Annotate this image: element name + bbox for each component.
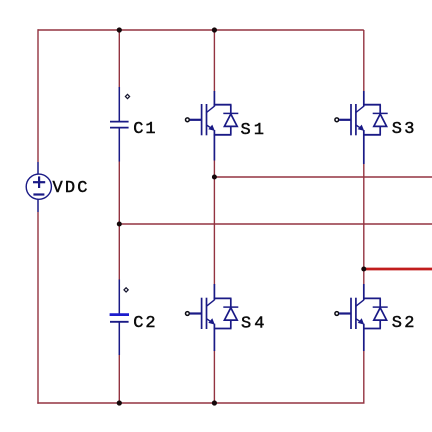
wire S2 emitter to bottom rail [363, 351, 365, 404]
S4 body bar [206, 298, 208, 329]
junction dot bottom rail x=214 [212, 400, 217, 405]
S4 emitter pin [213, 324, 215, 351]
S3 emitter pin [363, 130, 365, 164]
VDC plus sign [33, 181, 45, 183]
S1 gate terminal circle [186, 118, 190, 122]
junction dot bottom rail x=119 [117, 400, 122, 405]
S4 diode cathode bar [223, 306, 238, 308]
S2 emitter arrowhead [358, 318, 365, 324]
S3 collector pin [363, 91, 365, 107]
wire left rail upper [37, 29, 39, 162]
svg-text:S2: S2 [392, 314, 417, 333]
S3 diode triangle [374, 114, 387, 126]
S4 bottom tee to diode [214, 328, 232, 330]
C1 top plate [110, 121, 129, 123]
junction node A [212, 175, 217, 180]
C2 polarity marker [124, 288, 128, 292]
S2 gate bar [350, 298, 352, 329]
S4 gate bar [201, 298, 203, 329]
S2 emitter pin [363, 324, 365, 351]
S4 emitter diagonal [207, 319, 214, 324]
S2 diode bottom stub [379, 320, 381, 328]
S3 body bar [355, 104, 357, 135]
S1 emitter arrowhead [208, 125, 215, 131]
S1 diode bottom stub [230, 126, 232, 134]
VDC bottom pin [37, 199, 39, 212]
S4 emitter arrowhead [208, 318, 215, 324]
wire left rail lower [37, 212, 39, 404]
wire node B to S2 [363, 269, 365, 285]
C2 bottom plate [110, 321, 129, 323]
junction cap midpoint [117, 222, 122, 227]
S1 gate lead [190, 119, 202, 121]
wire cap branch: top rail to C1 [118, 30, 120, 88]
S2 collector pin [363, 284, 365, 300]
wire leg1: top rail to S1 [213, 30, 215, 92]
S3 top tee to diode [363, 104, 381, 106]
VDC top pin [37, 162, 39, 174]
S2 diode cathode bar [373, 306, 388, 308]
S2 top tee to diode [363, 297, 381, 299]
S2 bottom tee to diode [363, 328, 381, 330]
S2 diode top stub [379, 298, 381, 307]
S3 gate terminal circle [335, 118, 339, 122]
C1 bottom pin [118, 128, 120, 162]
S3 gate lead [339, 119, 351, 121]
S4 diode triangle [224, 308, 237, 320]
wire node A to S4 [213, 177, 215, 285]
S2 gate terminal circle [335, 312, 339, 316]
junction dot top rail x=119 [117, 27, 122, 32]
wire C2 to bottom rail [118, 355, 120, 404]
S4 diode top stub [230, 298, 232, 307]
svg-text:C2: C2 [133, 314, 157, 333]
S1 diode triangle [224, 114, 237, 126]
S4 collector pin [213, 284, 215, 300]
S3 diode cathode bar [373, 112, 388, 114]
S3 gate bar [350, 104, 352, 135]
S1 collector diagonal [207, 106, 215, 112]
C1 bottom plate [110, 127, 129, 129]
S2 gate lead [339, 312, 351, 314]
svg-text:VDC: VDC [53, 179, 90, 198]
S4 top tee to diode [214, 297, 232, 299]
S2 collector diagonal [356, 300, 364, 306]
capacitor C2 [110, 280, 129, 356]
S1 top tee to diode [214, 104, 232, 106]
voltage source VDC [26, 162, 51, 212]
S4 collector diagonal [207, 300, 215, 306]
VDC circle [26, 174, 51, 199]
IGBT switch S4 [186, 284, 239, 351]
C2 top pin [118, 280, 120, 314]
wire cap midpoint to right edge [119, 223, 432, 225]
wire output node A to right edge [214, 176, 432, 178]
wire S1 emitter to node A [213, 161, 215, 178]
svg-text:S3: S3 [392, 120, 417, 139]
wire S4 emitter to bottom rail [213, 351, 215, 404]
S4 gate terminal circle [186, 312, 190, 316]
S3 emitter arrowhead [358, 125, 365, 131]
C1 polarity marker [125, 94, 129, 98]
wire mid junction to C2 [118, 224, 120, 280]
S4 gate lead [190, 312, 202, 314]
S1 emitter pin [213, 130, 215, 161]
junction node B [361, 267, 366, 272]
S1 emitter diagonal [207, 125, 214, 130]
S1 bottom tee to diode [214, 134, 232, 136]
S3 bottom tee to diode [363, 134, 381, 136]
IGBT switch S1 [186, 91, 239, 161]
S1 gate bar [201, 104, 203, 135]
S1 diode cathode bar [223, 112, 238, 114]
wire bottom rail [37, 402, 364, 404]
wire thick output node B to right edge [364, 268, 432, 271]
S1 body bar [206, 104, 208, 135]
wire leg2: top right corner to S3 [363, 30, 365, 92]
svg-text:C1: C1 [133, 120, 157, 139]
svg-text:S1: S1 [241, 121, 267, 140]
svg-text:S4: S4 [241, 314, 267, 333]
S3 emitter diagonal [356, 125, 363, 130]
S3 collector diagonal [356, 106, 364, 112]
S3 diode top stub [379, 105, 381, 114]
IGBT switch S2 [335, 284, 388, 351]
S2 body bar [355, 298, 357, 329]
wire C1 to mid junction [118, 161, 120, 224]
S3 diode bottom stub [379, 126, 381, 134]
S1 collector pin [213, 91, 215, 107]
S4 diode bottom stub [230, 320, 232, 328]
VDC minus sign [33, 193, 44, 195]
wire S3 emitter to node B [363, 164, 365, 269]
S1 diode top stub [230, 105, 232, 114]
capacitor C1 [110, 87, 129, 162]
C2 bottom pin [118, 322, 120, 355]
junction dot top rail x=214 [212, 27, 217, 32]
IGBT switch S3 [335, 91, 388, 164]
wire top rail [38, 29, 364, 31]
C1 top pin [118, 87, 120, 121]
S2 emitter diagonal [356, 319, 363, 324]
C2 top plate (thick) [110, 313, 129, 316]
S2 diode triangle [374, 308, 387, 320]
